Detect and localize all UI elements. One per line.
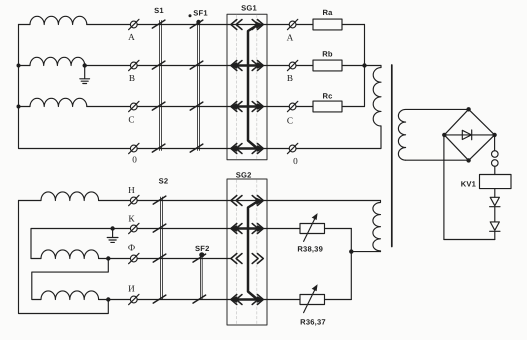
switch SF2 linkage xyxy=(199,255,201,299)
node SF2 top xyxy=(199,252,204,257)
wire K to R38 xyxy=(267,228,300,230)
switch SF2 blade xyxy=(193,295,206,303)
wire xyxy=(137,299,227,301)
node resistor join xyxy=(362,63,366,67)
svg-text:R36,37: R36,37 xyxy=(300,317,326,326)
terminal 0 (left) xyxy=(130,145,137,152)
wire xyxy=(137,65,227,67)
node B-winding end xyxy=(83,63,87,67)
wire I to R36 xyxy=(267,299,300,301)
svg-text:К: К xyxy=(128,213,135,223)
svg-text:0: 0 xyxy=(293,156,298,166)
diode VD1 xyxy=(490,197,499,205)
ground (bottom circuit) xyxy=(112,229,114,238)
diode VD2 xyxy=(490,222,499,230)
inductor L6 (I winding) xyxy=(41,291,99,300)
SG1 plug row C xyxy=(252,102,258,112)
wire R38 out xyxy=(325,228,352,230)
inductor L5 (F winding) xyxy=(31,258,41,260)
svg-text:SG1: SG1 xyxy=(241,3,257,12)
resistor Rb xyxy=(313,60,342,71)
wire xyxy=(494,231,496,239)
terminal B2 xyxy=(289,62,296,69)
svg-text:B: B xyxy=(287,73,293,83)
inductor L1 (phase A winding) xyxy=(19,24,31,26)
SG2 socket row F xyxy=(231,254,237,264)
svg-text:C: C xyxy=(128,115,134,125)
wire SG2 row K xyxy=(227,228,267,230)
switch SF2 blade xyxy=(193,254,206,262)
wire SG2 row F stub xyxy=(227,258,232,260)
wire xyxy=(296,106,313,108)
node ground-K xyxy=(110,226,114,230)
terminal I xyxy=(130,296,137,303)
svg-text:A: A xyxy=(287,33,294,43)
node bus-B xyxy=(17,64,21,68)
SG2 plug row I xyxy=(252,295,258,305)
wire xyxy=(494,189,496,198)
relay KV1 xyxy=(480,175,512,189)
variable resistor R36,37 xyxy=(300,295,325,305)
SG1 cable arrow row C xyxy=(233,105,262,108)
wire xyxy=(296,24,313,26)
wire xyxy=(137,228,227,230)
svg-text:A: A xyxy=(128,32,135,42)
wire SG1 row A xyxy=(227,24,267,26)
switch S1 blade xyxy=(152,61,165,69)
wire K-row bracket xyxy=(31,229,130,259)
transformer bottom primary winding xyxy=(373,201,381,251)
svg-text:И: И xyxy=(128,283,135,293)
wire bridge+ down xyxy=(494,135,496,151)
svg-text:B: B xyxy=(129,73,135,83)
switch SF1 linkage xyxy=(197,21,199,151)
svg-text:SF2: SF2 xyxy=(195,244,210,253)
switch S2 blade xyxy=(153,196,166,204)
SG1 test cable xyxy=(248,26,257,147)
SG1 socket row A xyxy=(231,20,237,30)
switch SF1 blade xyxy=(190,102,203,110)
node bridge top xyxy=(466,107,470,111)
fuse/jack X1 xyxy=(492,151,499,158)
SG2 socket row I xyxy=(231,295,237,305)
wire xyxy=(267,65,289,67)
wire left bus (top circuit) xyxy=(19,25,131,149)
SG1 cable arrow row 0 xyxy=(233,147,262,150)
wire xyxy=(296,65,313,67)
svg-text:KV1: KV1 xyxy=(461,179,477,188)
wire xyxy=(137,200,227,202)
switch S1 blade xyxy=(152,20,165,28)
terminal A2 xyxy=(289,21,296,28)
wire R36 out xyxy=(325,299,352,301)
wire xyxy=(342,106,365,108)
wire xyxy=(137,24,227,26)
switch S2 blade xyxy=(153,254,166,262)
switch S1 blade xyxy=(152,144,165,152)
wire SG1 row 0 xyxy=(227,148,267,150)
SG2 socket row K xyxy=(231,224,237,234)
wire xyxy=(137,258,227,260)
SG1 cable arrow row B xyxy=(233,64,262,67)
connector SG2 box xyxy=(227,179,267,325)
wire xyxy=(342,65,365,67)
switch SF1 blade xyxy=(190,61,203,69)
wire xyxy=(137,148,227,150)
svg-text:0: 0 xyxy=(132,155,137,165)
svg-text:R38,39: R38,39 xyxy=(297,244,323,253)
wire SG2 row H xyxy=(227,200,267,202)
node bridge left xyxy=(442,133,446,137)
switch S1 linkage xyxy=(159,21,161,151)
inductor L2 (phase B winding) xyxy=(19,65,31,67)
SG1 plug row A xyxy=(252,20,258,30)
wire SG2 row I xyxy=(227,299,267,301)
svg-text:Rb: Rb xyxy=(322,50,333,59)
SG1 plug row 0 xyxy=(252,144,258,154)
svg-text:S2: S2 xyxy=(159,176,169,185)
ground (top circuit) xyxy=(84,66,86,79)
transformer core xyxy=(391,65,393,247)
wire H to transformer xyxy=(267,200,381,202)
SG1 socket row C xyxy=(231,102,237,112)
switch S2 blade xyxy=(153,224,166,232)
node bridge right xyxy=(492,133,496,137)
switch S2 blade xyxy=(153,295,166,303)
svg-text:Ra: Ra xyxy=(322,8,333,17)
node R join xyxy=(349,249,353,253)
transformer top primary winding xyxy=(373,66,381,126)
wire xyxy=(267,148,289,150)
wire relay loop left xyxy=(443,135,445,240)
svg-text:SG2: SG2 xyxy=(236,171,252,180)
svg-text:Rc: Rc xyxy=(322,92,332,101)
wire xyxy=(494,207,496,222)
terminal K xyxy=(130,225,137,232)
switch SF1 blade xyxy=(190,20,203,28)
wire xyxy=(494,166,496,174)
SG1 socket row B xyxy=(231,61,237,71)
variable resistor R38,39 xyxy=(300,224,325,234)
wire F-I bracket xyxy=(32,259,109,300)
dot near SF1 label xyxy=(189,14,192,17)
svg-text:C: C xyxy=(287,115,293,125)
wire xyxy=(137,106,227,108)
inductor L3 (phase C winding) xyxy=(19,106,31,108)
wire xyxy=(267,106,289,108)
diode bridge VD xyxy=(444,109,494,160)
svg-text:Н: Н xyxy=(128,185,135,195)
node I-winding end xyxy=(106,297,110,301)
wire SG1 row C xyxy=(227,106,267,108)
switch S1 blade xyxy=(152,102,165,110)
wire relay loop bottom xyxy=(444,239,495,241)
transformer secondary winding xyxy=(398,109,468,160)
terminal C2 xyxy=(289,103,296,110)
terminal F xyxy=(130,255,137,262)
node bridge bottom xyxy=(466,158,470,162)
terminal A xyxy=(130,21,137,28)
SG2 test cable xyxy=(248,202,257,298)
SG1 socket row 0 xyxy=(231,144,237,154)
terminal C xyxy=(130,103,137,110)
wire left bus (bottom circuit) xyxy=(19,201,109,314)
SG2 cable arrow row I xyxy=(233,298,262,301)
resistor Ra xyxy=(313,19,342,30)
SG2 plug row F xyxy=(252,254,258,264)
SG2 cable arrow row K xyxy=(233,227,262,230)
switch SF1 blade xyxy=(190,144,203,152)
SG1 plug row B xyxy=(252,61,258,71)
wire Ra-Rb-Rc join xyxy=(364,25,366,107)
SG2 socket row H xyxy=(231,196,237,206)
wire R join vertical xyxy=(350,229,352,300)
terminal H xyxy=(130,197,137,204)
terminal B xyxy=(130,62,137,69)
connector SG1 box xyxy=(227,14,267,160)
wire xyxy=(267,24,289,26)
SG2 plug row K xyxy=(252,224,258,234)
svg-text:S1: S1 xyxy=(154,6,164,15)
wire SG1 row B xyxy=(227,65,267,67)
svg-text:Ф: Ф xyxy=(128,243,135,253)
wire xyxy=(342,24,365,26)
node SF1 top xyxy=(196,20,200,24)
node bus-C xyxy=(17,105,21,109)
node F-winding end xyxy=(106,256,110,260)
wire to primary xyxy=(365,65,382,67)
wire to bottom primary xyxy=(351,251,380,253)
svg-text:SF1: SF1 xyxy=(193,8,208,17)
SG2 plug row H xyxy=(252,196,258,206)
inductor L4 (H winding) xyxy=(19,200,42,202)
switch S2 linkage xyxy=(160,197,162,299)
resistor Rc xyxy=(313,101,342,112)
terminal 02 xyxy=(289,145,296,152)
